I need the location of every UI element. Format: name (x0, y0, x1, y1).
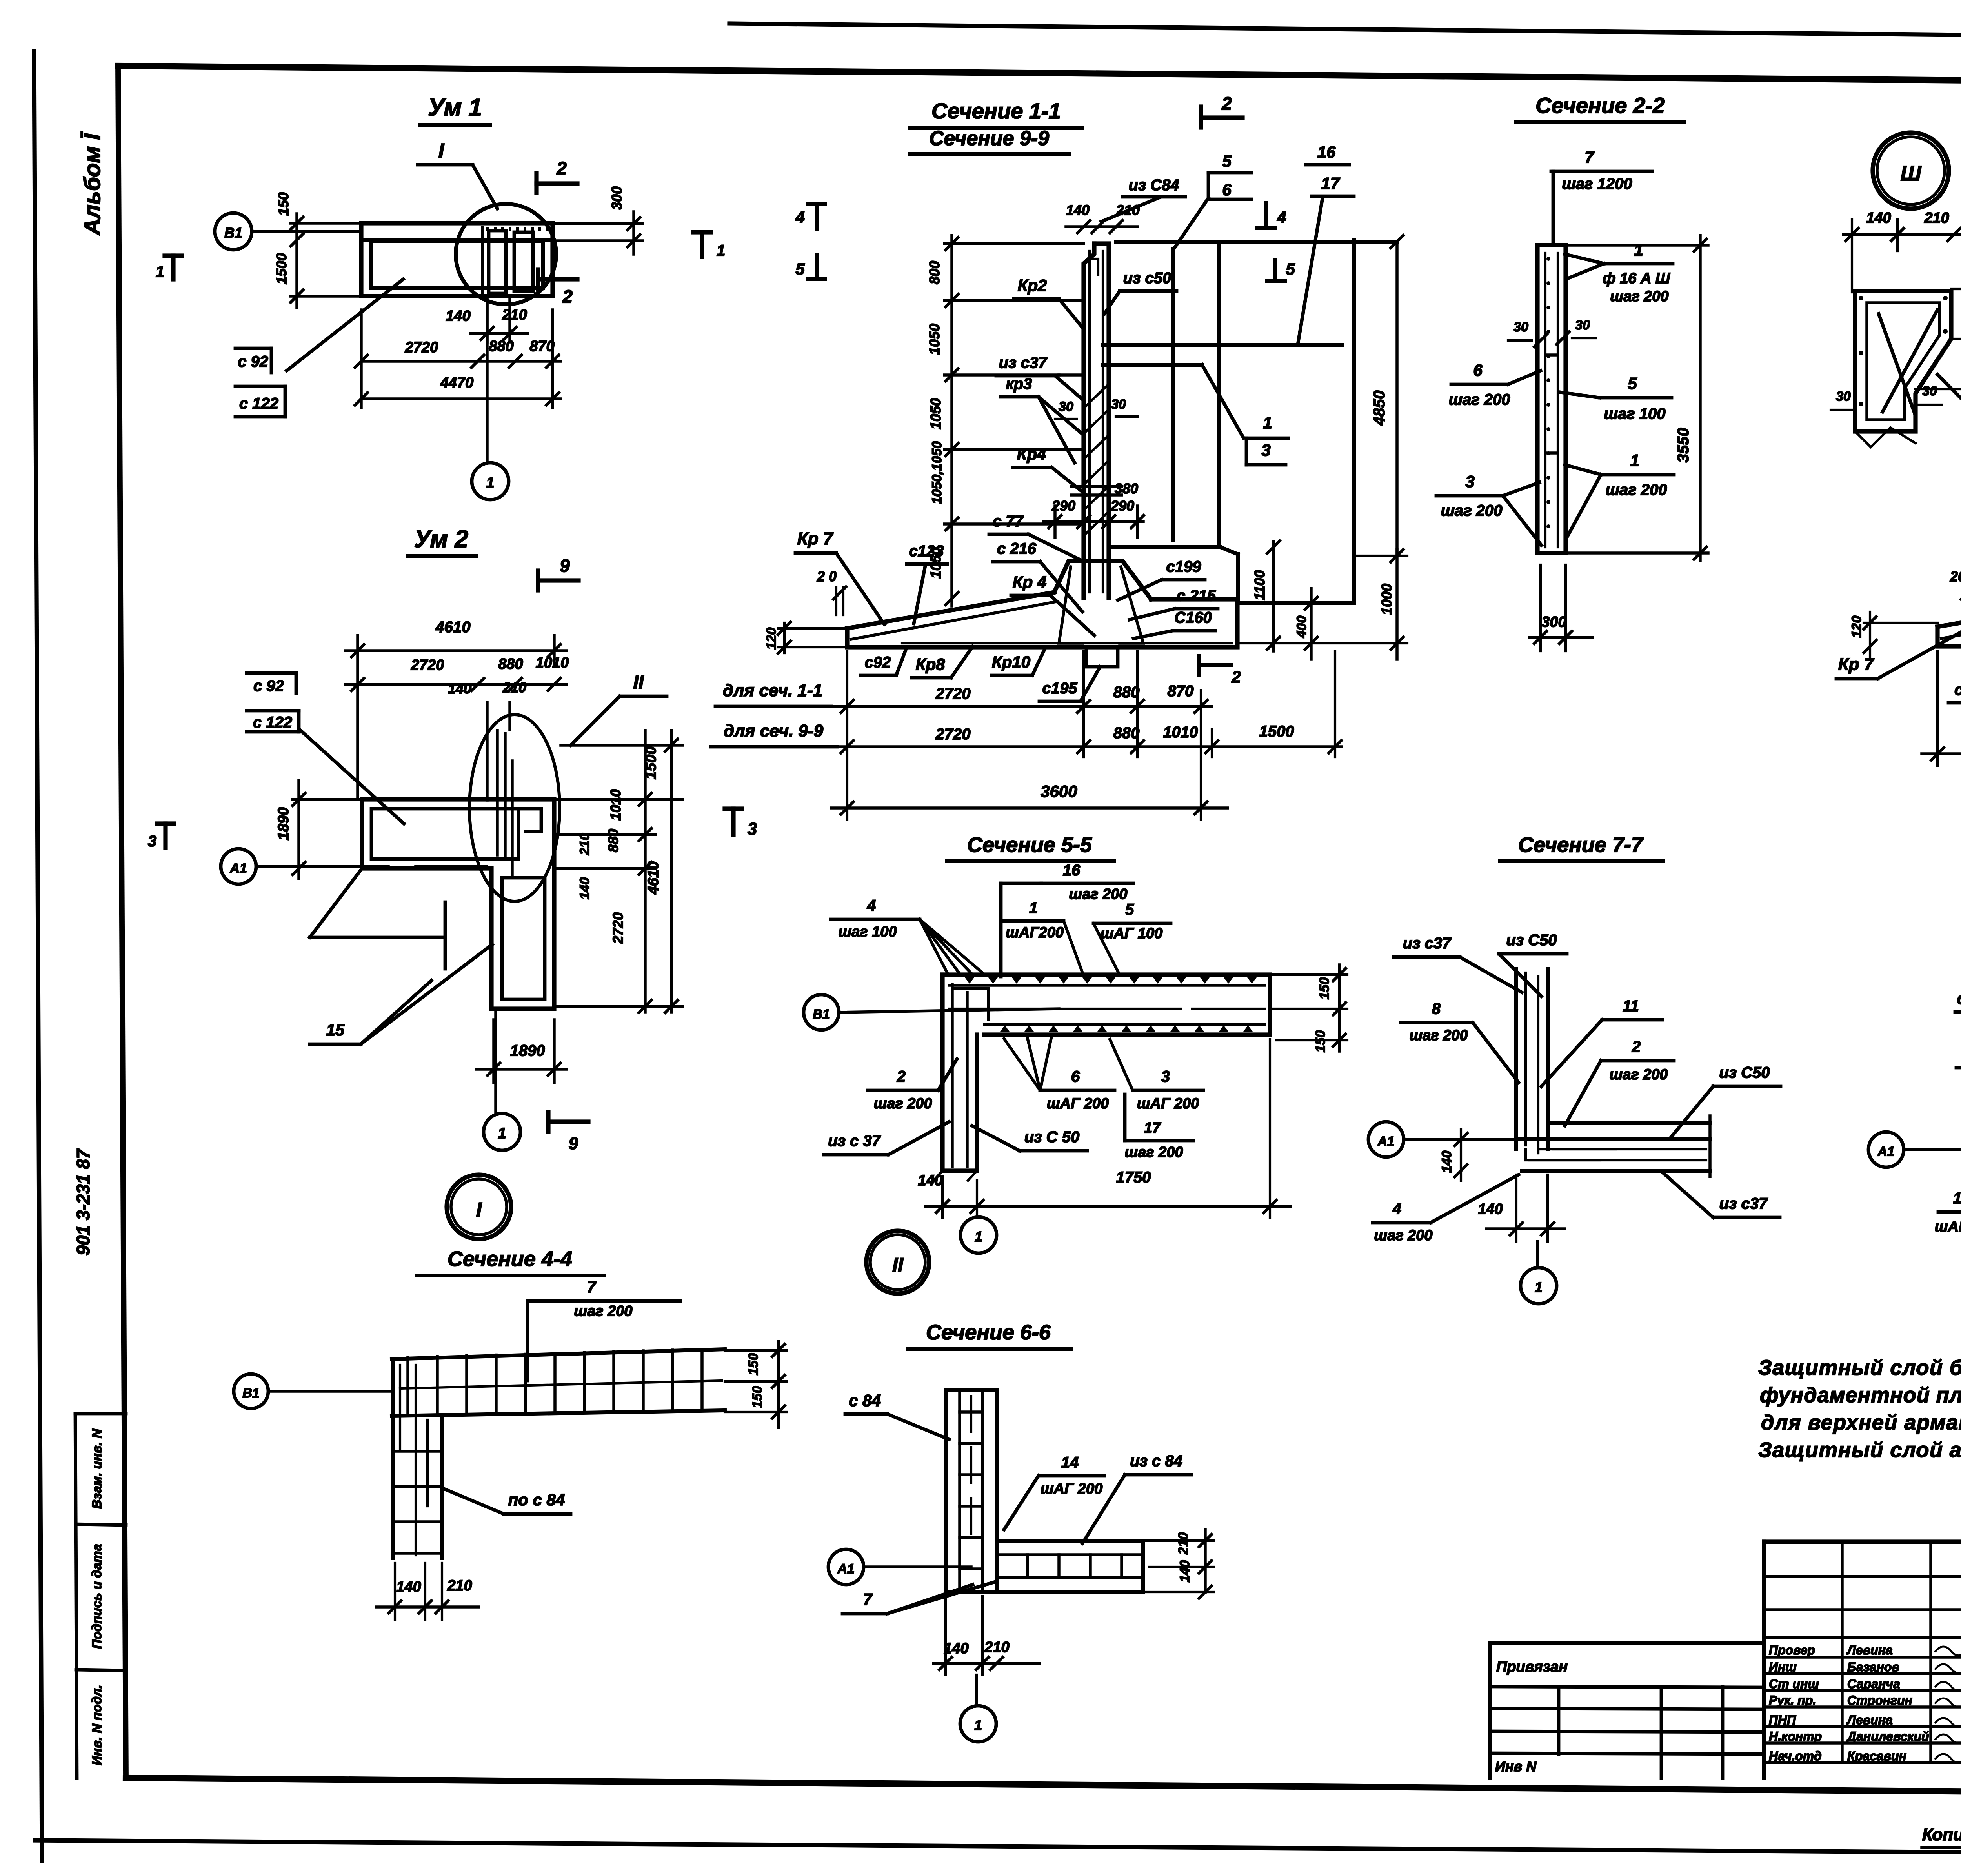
svg-text:по с 84: по с 84 (508, 1490, 565, 1509)
svg-text:Кр10: Кр10 (992, 653, 1030, 671)
axis circle B1 (215, 213, 252, 250)
svg-text:шАГ 100: шАГ 100 (1935, 1219, 1961, 1235)
svg-text:Сечение 7-7: Сечение 7-7 (1518, 833, 1644, 857)
Um1 wall top strip line (361, 238, 553, 242)
svg-text:для сеч. 9-9: для сеч. 9-9 (724, 721, 824, 741)
hatch dots on wall strip (486, 227, 489, 231)
Um2 corner step detail (518, 809, 541, 832)
Um1 wall plan inner rectangle (371, 241, 543, 288)
svg-text:30: 30 (1922, 384, 1937, 398)
svg-text:с 122: с 122 (253, 714, 292, 731)
slab horizontal section 5-5 (942, 975, 1270, 1035)
svg-text:шаг 1200: шаг 1200 (1562, 175, 1632, 193)
detail circle I on Um1 (456, 204, 556, 304)
leader to 1 3 box (1202, 365, 1244, 438)
svg-text:шаг 200: шаг 200 (1610, 288, 1668, 305)
svg-text:11: 11 (1623, 997, 1639, 1015)
svg-text:2: 2 (562, 286, 573, 307)
section cut 2 bottom marker (536, 270, 540, 289)
svg-text:из с37: из с37 (1719, 1195, 1768, 1212)
svg-text:2720: 2720 (411, 657, 444, 673)
svg-text:1100: 1100 (1252, 570, 1268, 600)
drawing frame top line (118, 66, 1961, 85)
circle 1 5-5 (960, 1217, 997, 1253)
band rungs 4-4 (406, 1357, 409, 1415)
axis circle 1 bottom (472, 463, 509, 500)
svg-text:9: 9 (560, 555, 570, 576)
svg-text:150: 150 (1317, 977, 1332, 1000)
svg-text:с 92: с 92 (253, 677, 284, 695)
backfill boundary lines right of wall (1116, 240, 1397, 244)
svg-text:Н.контр: Н.контр (1769, 1729, 1822, 1743)
ref box c92 Um2 (247, 671, 296, 675)
svg-text:Ст инш: Ст инш (1769, 1677, 1819, 1691)
svg-text:400: 400 (1294, 616, 1309, 639)
svg-text:3: 3 (148, 833, 156, 850)
svg-text:шаг 200: шаг 200 (574, 1303, 632, 1319)
svg-text:1: 1 (1535, 1279, 1543, 1295)
section cut 3 left marker (157, 821, 174, 826)
svg-text:Провер: Провер (1769, 1643, 1815, 1657)
title block attachment table left part (1490, 1641, 1764, 1645)
svg-text:Сечение 9-9: Сечение 9-9 (929, 127, 1049, 150)
svg-text:1750: 1750 (1116, 1169, 1151, 1186)
vertical band rungs 4-4 (393, 1450, 442, 1453)
svg-text:7: 7 (863, 1590, 873, 1609)
footing pedestal trapezoid (1054, 561, 1151, 599)
svg-text:для сеч. 1-1: для сеч. 1-1 (723, 681, 822, 700)
ref box c122 (235, 385, 285, 388)
svg-text:5: 5 (1286, 260, 1295, 278)
wall band rungs 6-6 (960, 1410, 982, 1414)
svg-text:шаг 200: шаг 200 (873, 1095, 932, 1112)
svg-text:6: 6 (1473, 361, 1483, 379)
footing slab outline section 1-1 (847, 599, 1237, 647)
svg-text:2720: 2720 (935, 726, 971, 743)
svg-text:с195: с195 (1042, 680, 1078, 697)
svg-text:8: 8 (1432, 1000, 1441, 1017)
step of excavation boundary (1111, 545, 1221, 549)
wall section 2-2 rectangle (1537, 245, 1566, 553)
svg-text:870: 870 (1168, 682, 1194, 700)
svg-text:140: 140 (1866, 210, 1891, 226)
slab end bars 7-7 (1708, 1116, 1712, 1177)
svg-text:4850: 4850 (1371, 391, 1388, 426)
detail circle I title (447, 1175, 511, 1239)
axis circle 1 Um2 (484, 1114, 520, 1150)
leader from boxes to Um2 (300, 730, 404, 824)
svg-text:140: 140 (446, 308, 470, 324)
svg-text:с123: с123 (909, 542, 944, 560)
svg-text:4470: 4470 (440, 375, 474, 391)
section cut 1 right marker T1 (693, 230, 711, 234)
slab top mat rebar 5-5 (949, 984, 1265, 987)
svg-text:Взам. инв. N: Взам. инв. N (89, 1428, 104, 1509)
circle B1 5-5 (804, 995, 839, 1030)
svg-text:Левина: Левина (1846, 1713, 1893, 1727)
svg-text:ф 16 А Ш: ф 16 А Ш (1603, 270, 1670, 287)
svg-text:Подпись и дата: Подпись и дата (89, 1544, 104, 1649)
svg-text:140: 140 (1066, 202, 1090, 218)
svg-text:1010: 1010 (608, 789, 624, 821)
slab horizontal 7-7 (1516, 1137, 1710, 1141)
ref box c92 (235, 347, 271, 350)
svg-text:с 92: с 92 (238, 353, 268, 370)
retaining wall stem section 1-1 (1094, 244, 1109, 598)
svg-text:30: 30 (1513, 320, 1528, 335)
svg-text:210: 210 (447, 1578, 472, 1594)
wall band vertical 6-6 (946, 1390, 997, 1592)
slab bottom mat rebar 5-5 (984, 1023, 1265, 1026)
section cut 2 marker bottom (1197, 656, 1201, 675)
svg-text:С160: С160 (1174, 609, 1212, 626)
svg-text:1: 1 (486, 475, 494, 491)
svg-text:140: 140 (1177, 1560, 1192, 1583)
svg-text:1050: 1050 (926, 324, 942, 355)
Um2 plan outer shape L (362, 799, 554, 1009)
svg-text:880: 880 (1113, 684, 1140, 701)
svg-text:Защитный слой бетона для нижне: Защитный слой бетона для нижней арматуры (1758, 1356, 1961, 1379)
section cut 4 5 markers left (808, 202, 825, 206)
svg-text:шАГ 200: шАГ 200 (1137, 1095, 1199, 1112)
svg-text:1500: 1500 (273, 253, 289, 284)
svg-text:фундаментной плиты подпорной с: фундаментной плиты подпорной стенки -35м… (1760, 1383, 1961, 1407)
svg-text:2: 2 (1221, 93, 1232, 114)
svg-text:Сечение 1-1: Сечение 1-1 (931, 98, 1061, 123)
right dim vertical lines Um2 (644, 730, 647, 1012)
wall bottom break 5-5 (933, 1171, 942, 1181)
detail III U-section outline (1855, 291, 1951, 431)
svg-text:2: 2 (1231, 668, 1241, 686)
svg-text:Привязан: Привязан (1496, 1659, 1568, 1675)
circle A1 8-8 (1868, 1132, 1904, 1167)
section cut 1 left marker (165, 253, 182, 258)
svg-text:Стронгин: Стронгин (1847, 1693, 1912, 1707)
rebar bars inside detail circle (489, 231, 506, 293)
right dim 3550 (1699, 235, 1702, 561)
svg-text:1890: 1890 (275, 807, 292, 841)
svg-text:с 92: с 92 (1954, 681, 1961, 699)
svg-text:1: 1 (1029, 899, 1038, 917)
svg-text:290: 290 (1110, 498, 1134, 514)
svg-text:шАГ200: шАГ200 (1006, 924, 1064, 941)
svg-text:17: 17 (1144, 1120, 1161, 1136)
svg-text:140: 140 (1439, 1151, 1454, 1173)
svg-text:3550: 3550 (1675, 428, 1692, 463)
svg-text:шАГ 200: шАГ 200 (1047, 1095, 1109, 1112)
svg-text:с92: с92 (865, 654, 891, 671)
svg-text:1: 1 (974, 1717, 982, 1733)
wall stirrup ticks (1085, 385, 1108, 407)
svg-text:3600: 3600 (1041, 782, 1077, 801)
svg-text:4: 4 (867, 897, 876, 914)
svg-text:3: 3 (1261, 441, 1270, 459)
section cut 9 top marker (536, 571, 540, 590)
section cut 2 top marker (534, 173, 538, 193)
svg-text:I: I (438, 140, 445, 162)
svg-text:шаг 200: шаг 200 (1409, 1027, 1468, 1044)
axis circle A1 (221, 849, 256, 884)
svg-text:140: 140 (918, 1172, 942, 1189)
svg-text:шаг 200: шаг 200 (1124, 1144, 1183, 1161)
svg-text:Кр2: Кр2 (1018, 276, 1047, 295)
svg-text:Нач.отд: Нач.отд (1769, 1749, 1822, 1763)
svg-text:Сечение 2-2: Сечение 2-2 (1535, 93, 1665, 118)
svg-text:1010: 1010 (536, 655, 569, 671)
Um2 plan inner lines (371, 809, 518, 859)
svg-text:с 216: с 216 (1957, 989, 1961, 1008)
svg-text:Саранча: Саранча (1847, 1677, 1900, 1691)
svg-text:шаг 200: шаг 200 (1374, 1227, 1432, 1244)
svg-text:Инш: Инш (1769, 1660, 1797, 1674)
svg-text:1500: 1500 (1259, 723, 1294, 740)
svg-text:16: 16 (1317, 143, 1336, 161)
svg-text:Ум 1: Ум 1 (428, 94, 482, 121)
circle 1 6-6 (960, 1706, 996, 1742)
slab axis dash line (949, 1008, 1181, 1010)
svg-text:1: 1 (1263, 413, 1272, 432)
svg-text:А1: А1 (229, 861, 247, 876)
detail III inner lines (1867, 303, 1939, 420)
signature squiggles (1936, 1643, 1961, 1655)
svg-text:Красавин: Красавин (1847, 1749, 1906, 1763)
svg-text:1050: 1050 (928, 398, 944, 429)
svg-text:870: 870 (529, 338, 554, 355)
svg-text:880: 880 (489, 338, 513, 355)
svg-text:1: 1 (156, 263, 164, 280)
svg-text:1: 1 (717, 242, 725, 259)
svg-text:шаг 200: шаг 200 (1605, 481, 1667, 499)
svg-text:ПНП: ПНП (1769, 1713, 1796, 1727)
svg-text:1: 1 (975, 1228, 982, 1245)
svg-text:с 215: с 215 (1177, 587, 1216, 604)
svg-text:210: 210 (577, 833, 592, 856)
svg-text:для верхней арматуры - 25мм.: для верхней арматуры - 25мм. (1761, 1411, 1961, 1434)
svg-text:из с37: из с37 (1403, 935, 1452, 952)
svg-text:шаг 200: шаг 200 (1448, 391, 1510, 408)
corner bars 7-7 (1526, 1149, 1600, 1160)
svg-text:кр3: кр3 (1006, 375, 1032, 393)
svg-text:30: 30 (1575, 318, 1590, 333)
svg-text:Кр8: Кр8 (916, 655, 945, 673)
svg-text:из С50: из С50 (1506, 932, 1557, 949)
svg-text:Инв. N подл.: Инв. N подл. (89, 1685, 104, 1765)
svg-text:2720: 2720 (610, 912, 626, 944)
svg-text:с 77: с 77 (993, 513, 1024, 530)
svg-text:210: 210 (1176, 1532, 1191, 1555)
svg-text:из С 50: из С 50 (1024, 1128, 1079, 1146)
svg-text:300: 300 (609, 186, 625, 210)
circle A1 7-7 (1368, 1122, 1404, 1157)
right dim 300 extension lines (553, 222, 642, 225)
svg-text:шаг 100: шаг 100 (1604, 405, 1665, 422)
svg-text:с199: с199 (1166, 558, 1202, 575)
corner hook bars 5-5 (955, 988, 988, 1020)
svg-text:2720: 2720 (935, 685, 971, 702)
svg-text:1890: 1890 (510, 1042, 545, 1059)
left dim line Um1 (295, 214, 298, 308)
wall 2-2 inner rebar (1544, 253, 1546, 547)
svg-text:210: 210 (502, 679, 526, 695)
wall vertical section 5-5 (942, 975, 977, 1171)
svg-text:5: 5 (1125, 901, 1134, 918)
svg-text:210: 210 (984, 1639, 1009, 1656)
rebar lines inside ellipse II (496, 730, 499, 855)
sheet outer left edge line (34, 51, 42, 1861)
svg-text:1050,1050: 1050,1050 (930, 441, 944, 504)
svg-text:15: 15 (326, 1021, 345, 1039)
detail circle III title (1873, 133, 1949, 209)
svg-text:II: II (633, 672, 644, 693)
ref box c122 Um2 (247, 709, 299, 713)
section cut 2 marker top middle (1199, 107, 1203, 127)
svg-text:Кр 7: Кр 7 (797, 529, 834, 548)
svg-text:140: 140 (396, 1579, 421, 1595)
wall 2-2 mid ties (1546, 353, 1557, 357)
detail circle II title (866, 1231, 929, 1294)
svg-text:1: 1 (1630, 451, 1639, 469)
footing bottom rebar line (902, 642, 1232, 644)
svg-text:3: 3 (748, 819, 757, 839)
svg-text:шаг 100: шаг 100 (838, 924, 897, 940)
svg-text:14: 14 (1061, 1454, 1079, 1471)
svg-text:В1: В1 (242, 1386, 259, 1401)
wall inner rebar lines (1088, 251, 1091, 592)
svg-text:с 122: с 122 (239, 395, 278, 412)
svg-text:13: 13 (1953, 1190, 1961, 1207)
svg-text:6: 6 (1222, 180, 1232, 199)
horizontal band 4-4 (392, 1349, 725, 1359)
svg-text:4: 4 (795, 208, 804, 226)
svg-text:150: 150 (746, 1353, 761, 1376)
svg-text:150: 150 (275, 192, 291, 216)
svg-text:210: 210 (1924, 210, 1949, 226)
svg-text:120: 120 (764, 628, 779, 650)
svg-text:140: 140 (944, 1640, 968, 1657)
svg-text:из с 37: из с 37 (828, 1132, 881, 1150)
circle 1 7-7 (1521, 1268, 1557, 1304)
svg-text:800: 800 (926, 261, 942, 284)
svg-text:Сечение 4-4: Сечение 4-4 (448, 1247, 572, 1271)
top hook of facing mesh (1090, 259, 1098, 275)
svg-text:4: 4 (1277, 208, 1286, 226)
svg-text:шаг 200: шаг 200 (1609, 1066, 1668, 1083)
leader from ref boxes to plan (287, 279, 403, 371)
anchor pocket below wall (1086, 647, 1118, 667)
svg-text:Кр4: Кр4 (1017, 445, 1046, 463)
svg-text:20: 20 (1950, 568, 1961, 584)
svg-text:3: 3 (1465, 472, 1474, 491)
title block signature table (1764, 1539, 1961, 1544)
detail III break line bottom (1855, 428, 1916, 447)
section cut 3 mid marker T3 (725, 806, 742, 811)
svg-text:120: 120 (1849, 616, 1864, 638)
svg-text:II: II (892, 1254, 904, 1276)
svg-text:880: 880 (1113, 724, 1140, 742)
svg-text:Данилевский: Данилевский (1846, 1729, 1929, 1743)
detail III diagonal bars (1879, 314, 1916, 416)
svg-text:880: 880 (605, 829, 621, 852)
svg-text:Инв N: Инв N (1495, 1758, 1537, 1774)
svg-text:210: 210 (502, 307, 527, 323)
wall center dash 6-6 (970, 1396, 972, 1432)
svg-text:140: 140 (577, 877, 592, 900)
wall vertical 7-7 (1514, 969, 1518, 1149)
svg-text:5: 5 (1222, 152, 1232, 170)
corner bars detail 4-4 (399, 1365, 401, 1451)
svg-text:140: 140 (1478, 1201, 1503, 1217)
svg-text:16: 16 (1063, 862, 1081, 879)
svg-text:Базанов: Базанов (1847, 1660, 1899, 1674)
svg-text:2720: 2720 (405, 339, 438, 356)
svg-text:А1: А1 (837, 1561, 854, 1576)
svg-text:шАГ 100: шАГ 100 (1101, 925, 1163, 942)
svg-text:А1: А1 (1377, 1134, 1394, 1149)
svg-text:из С50: из С50 (1719, 1064, 1770, 1081)
leader lines lower left of Um2 (310, 868, 362, 937)
svg-text:4610: 4610 (435, 619, 471, 636)
circle A1 6-6 (828, 1549, 864, 1585)
svg-text:2: 2 (897, 1068, 906, 1085)
svg-text:7: 7 (587, 1277, 597, 1296)
extension verticals bottom dims (846, 651, 848, 820)
wall 2-2 rebar dots (1546, 257, 1550, 261)
svg-text:30: 30 (1059, 399, 1073, 414)
svg-text:из с50: из с50 (1123, 269, 1172, 287)
svg-text:шАГ 200: шАГ 200 (1041, 1481, 1103, 1497)
svg-text:2: 2 (556, 158, 567, 178)
svg-text:9: 9 (569, 1134, 578, 1153)
svg-text:с 216: с 216 (997, 540, 1037, 557)
svg-text:3: 3 (1161, 1068, 1170, 1085)
svg-text:1000: 1000 (1379, 584, 1395, 615)
section cut 9 bottom marker (546, 1112, 550, 1132)
svg-text:В1: В1 (813, 1007, 830, 1022)
svg-text:30: 30 (1836, 389, 1851, 404)
svg-text:Защитный слой арматуры подпорн: Защитный слой арматуры подпорных стен-30… (1758, 1438, 1961, 1462)
svg-text:Рук. пр.: Рук. пр. (1769, 1693, 1816, 1707)
drawing frame left line (118, 66, 126, 1778)
svg-text:150: 150 (750, 1386, 765, 1408)
wall base ties (1071, 485, 1122, 488)
svg-text:880: 880 (498, 656, 523, 672)
svg-text:1: 1 (1634, 241, 1643, 259)
svg-text:5: 5 (795, 260, 805, 278)
svg-text:210: 210 (1116, 202, 1140, 218)
slab band horizontal 6-6 (997, 1541, 1143, 1592)
footing slab outline 3-3 (1937, 604, 1961, 646)
svg-text:А1: А1 (1877, 1144, 1894, 1159)
svg-text:Копировал: Копировал (1922, 1825, 1961, 1844)
svg-text:4: 4 (1392, 1200, 1401, 1217)
svg-text:из с 84: из с 84 (1130, 1452, 1182, 1470)
svg-text:1: 1 (498, 1125, 506, 1142)
svg-text:Ум 2: Ум 2 (414, 526, 468, 553)
svg-text:1010: 1010 (1163, 724, 1198, 741)
detail III rebar dots (1859, 296, 1863, 300)
svg-text:из С84: из С84 (1128, 177, 1179, 194)
svg-text:шаг 200: шаг 200 (1441, 502, 1502, 519)
section cut 4 5 markers right (1264, 203, 1268, 228)
svg-text:2: 2 (1632, 1038, 1641, 1055)
stamp column boxes left margin (75, 1414, 77, 1778)
svg-text:300: 300 (1541, 614, 1566, 630)
drawing frame bottom line (126, 1778, 1961, 1796)
svg-text:Сечение 5-5: Сечение 5-5 (967, 833, 1092, 857)
svg-text:380: 380 (1115, 480, 1138, 497)
svg-text:Левина: Левина (1846, 1643, 1893, 1657)
svg-text:901 3-231 87: 901 3-231 87 (73, 1148, 93, 1256)
